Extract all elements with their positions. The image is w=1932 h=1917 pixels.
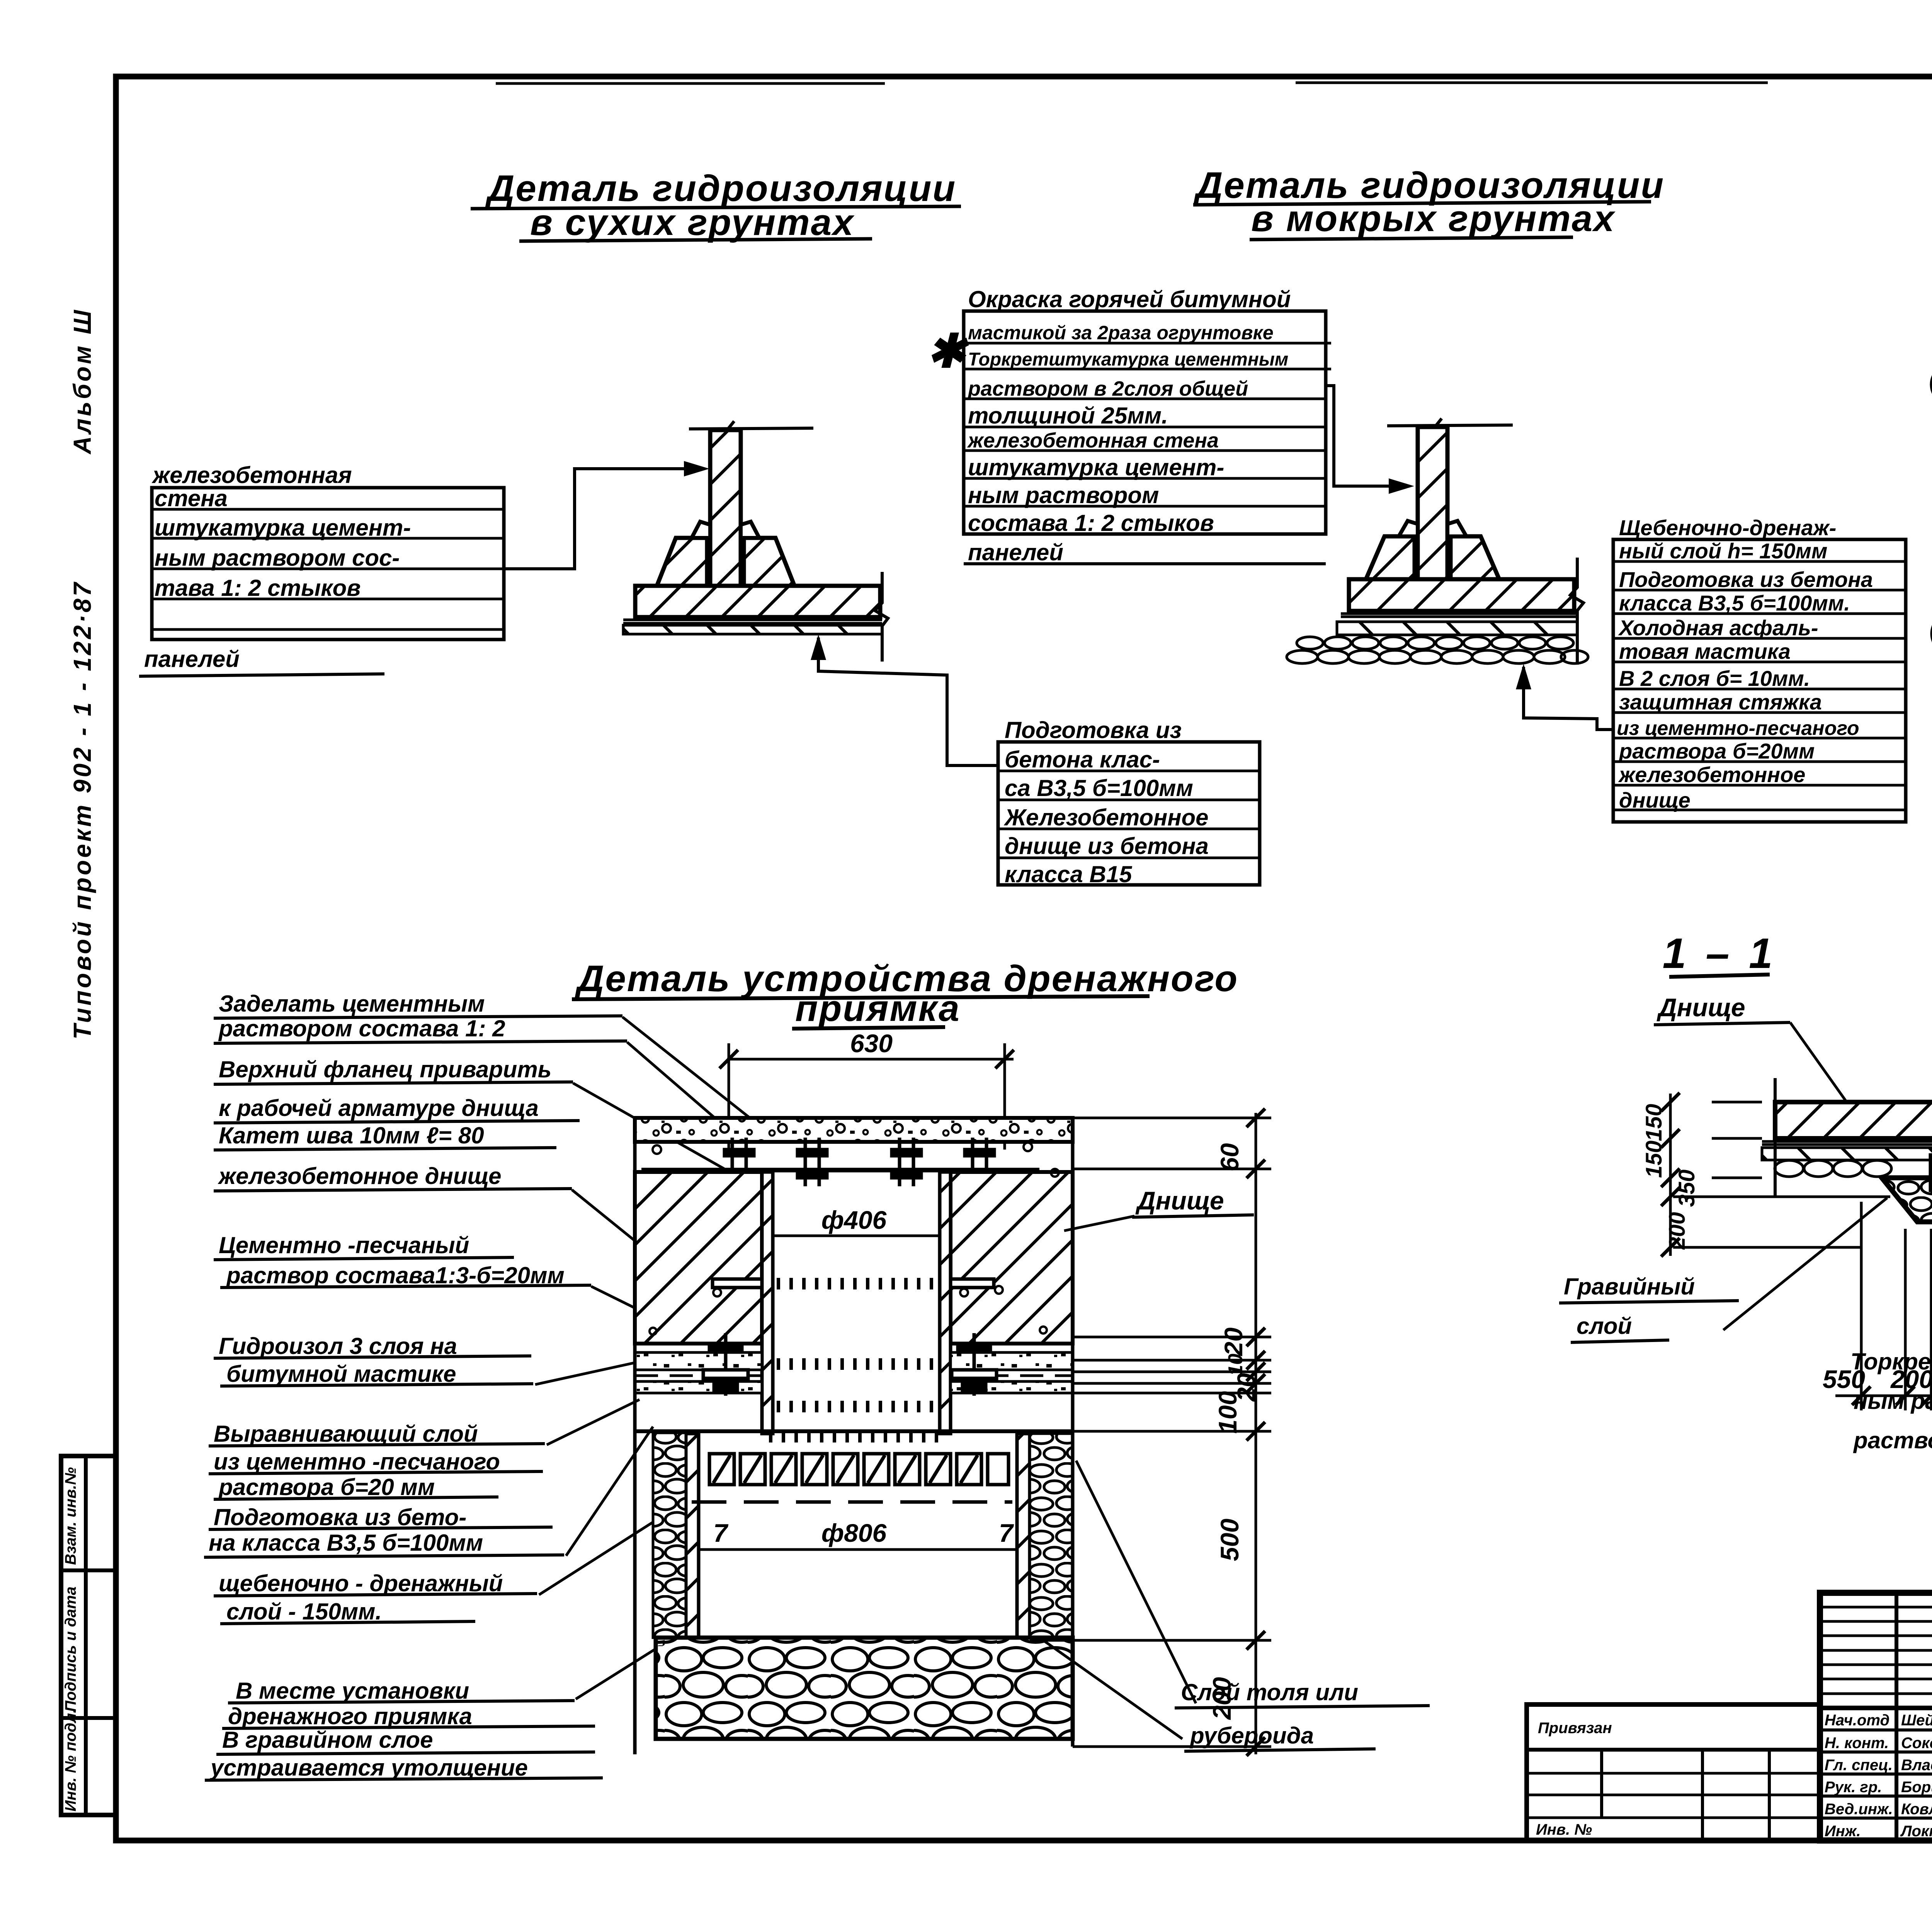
svg-text:Окраска горячей битумной: Окраска горячей битумной xyxy=(968,286,1291,312)
svg-text:200: 200 xyxy=(1665,1212,1690,1250)
big detail: bottom gravel bed xyxy=(656,1638,1073,1739)
svg-text:битумной мастике: битумной мастике xyxy=(226,1361,456,1387)
big detail: base slab hatched left xyxy=(635,1172,762,1344)
section 1-1: gravel funnel xyxy=(1882,1178,1932,1222)
big detail: pit box walls xyxy=(686,1434,699,1638)
svg-text:500: 500 xyxy=(1215,1519,1244,1561)
svg-text:150: 150 xyxy=(1641,1104,1667,1141)
big detail: Днище label xyxy=(1064,1186,1254,1231)
svg-text:Гравийный: Гравийный xyxy=(1564,1274,1695,1300)
upper attestation grid xyxy=(1820,1606,1932,1609)
title block (stamp) xyxy=(1820,1593,1932,1840)
svg-text:раствором в 2слоя общей: раствором в 2слоя общей xyxy=(967,377,1248,400)
svg-text:Катет шва 10мм ℓ= 80: Катет шва 10мм ℓ= 80 xyxy=(219,1123,484,1148)
svg-text:В 2 слоя б= 10мм.: В 2 слоя б= 10мм. xyxy=(1619,666,1810,691)
svg-text:щебеночно - дренажный: щебеночно - дренажный xyxy=(219,1570,503,1596)
left margin small table xyxy=(61,1456,116,1815)
big detail: grate rectangles xyxy=(709,1454,1009,1485)
big detail: base slab hatched right xyxy=(951,1172,1073,1344)
footing left block xyxy=(1366,536,1415,579)
dry detail: leader to wall xyxy=(504,469,696,569)
svg-text:класса В3,5 б=100мм.: класса В3,5 б=100мм. xyxy=(1619,591,1850,615)
stamp: roles xyxy=(1825,1712,1932,1840)
svg-text:100: 100 xyxy=(1213,1391,1242,1434)
svg-text:Шейко: Шейко xyxy=(1901,1712,1932,1729)
gravel row 2 xyxy=(1287,650,1588,663)
section 1-1: Гравийный слой label xyxy=(1559,1198,1887,1342)
svg-text:ный слой h= 150мм: ный слой h= 150мм xyxy=(1619,539,1827,563)
big detail: layer package right xyxy=(951,1344,1073,1393)
svg-text:ф406: ф406 xyxy=(821,1206,887,1234)
svg-text:Холодная асфаль-: Холодная асфаль- xyxy=(1618,616,1818,640)
svg-text:Торкрет штукатурка коллоидно: Торкрет штукатурка коллоидно -полимерцем… xyxy=(1850,1349,1932,1374)
svg-text:150: 150 xyxy=(1641,1141,1667,1178)
section 1-1: Днище label xyxy=(1654,993,1848,1104)
big detail: dim 630 xyxy=(719,1029,1014,1150)
big detail: dashed line in pit xyxy=(692,1500,1012,1504)
svg-text:Подготовка из бетона: Подготовка из бетона xyxy=(1619,567,1873,592)
svg-text:слой: слой xyxy=(1577,1313,1632,1339)
svg-text:Торкретштукатурка цементным: Торкретштукатурка цементным xyxy=(968,349,1288,370)
svg-text:в сухих грунтах: в сухих грунтах xyxy=(530,202,855,243)
svg-text:Локтионов: Локтионов xyxy=(1900,1823,1932,1840)
svg-text:Рук. гр.: Рук. гр. xyxy=(1825,1779,1882,1796)
big detail: left label lines xyxy=(204,991,627,1781)
svg-text:стена: стена xyxy=(155,485,228,511)
svg-text:Гидроизол 3 слоя на: Гидроизол 3 слоя на xyxy=(219,1333,457,1359)
wet detail: wall section xyxy=(1287,418,1588,665)
svg-text:железобетонное: железобетонное xyxy=(1618,762,1805,787)
svg-text:бетона клас-: бетона клас- xyxy=(1005,747,1160,772)
svg-text:Днище: Днище xyxy=(1135,1186,1224,1215)
wet detail: leader to wall xyxy=(1326,386,1401,486)
section 1-1 title xyxy=(1663,930,1777,977)
svg-text:Верхний фланец приварить: Верхний фланец приварить xyxy=(219,1056,551,1082)
floor slab xyxy=(635,586,880,617)
thin screed strip xyxy=(623,625,882,634)
svg-text:ным раствором по а.с. N 537: ным раствором по а.с. N 537972„ строител… xyxy=(1854,1388,1932,1414)
footing right block xyxy=(1451,536,1499,579)
gravel row 1 xyxy=(1297,637,1573,649)
big detail: право dimension chain xyxy=(1030,1113,1271,1754)
svg-text:Подпись и дата: Подпись и дата xyxy=(62,1587,79,1712)
big detail: bottom of base xyxy=(635,1429,1073,1433)
svg-text:Инв. №: Инв. № xyxy=(1536,1821,1592,1838)
svg-text:ным раствором: ным раствором xyxy=(968,482,1159,508)
membrane lines xyxy=(1341,612,1577,615)
svg-text:штукатурка цемент-: штукатурка цемент- xyxy=(155,515,411,541)
footing left block xyxy=(657,538,707,586)
svg-text:железобетонная стена: железобетонная стена xyxy=(967,429,1219,452)
svg-text:Взам. инв.№: Взам. инв.№ xyxy=(62,1467,79,1565)
dry detail: leader to подготовка block xyxy=(818,638,998,765)
section 1-1: cobble strip row xyxy=(1775,1160,1932,1177)
small voids in base mass xyxy=(650,1143,1059,1335)
svg-text:7: 7 xyxy=(999,1519,1014,1547)
big detail: label leader lines xyxy=(535,1017,773,1699)
svg-text:Подготовка из: Подготовка из xyxy=(1005,717,1182,743)
svg-text:В месте установки: В месте установки xyxy=(236,1678,469,1704)
svg-text:приямка: приямка xyxy=(795,988,961,1029)
svg-text:Власенко: Власенко xyxy=(1901,1757,1932,1774)
big detail: rebar tick rows xyxy=(769,1284,943,1437)
cold asphalt mastic strip xyxy=(1337,622,1577,635)
dry detail: wall section xyxy=(623,421,888,662)
big detail: pit pipe walls xyxy=(762,1172,773,1434)
svg-text:Железобетонное: Железобетонное xyxy=(1003,805,1209,830)
svg-text:мастикой за 2раза огрунтовке: мастикой за 2раза огрунтовке xyxy=(968,322,1274,344)
section 1-1: bottom dims xyxy=(1835,1202,1932,1410)
wet detail: leader to right label box xyxy=(1524,667,1613,730)
big detail: flange plate xyxy=(641,1168,1039,1172)
svg-text:Вед.инж.: Вед.инж. xyxy=(1825,1801,1893,1818)
svg-text:60: 60 xyxy=(1215,1143,1244,1172)
svg-text:Гл. спец.: Гл. спец. xyxy=(1825,1757,1893,1774)
dry detail: label box Подготовка из бетона xyxy=(998,717,1260,887)
svg-text:Днище: Днище xyxy=(1656,993,1745,1022)
note: как вариант рекомендуется xyxy=(1850,1309,1932,1453)
title: Деталь гидроизоляции в мокрых грунтах xyxy=(1193,165,1665,240)
big detail title xyxy=(572,958,1238,1029)
big detail: anchor bolts top xyxy=(724,1138,994,1186)
membrane lines xyxy=(623,619,882,621)
svg-text:Подготовка из бето-: Подготовка из бето- xyxy=(214,1504,466,1530)
svg-text:тава 1: 2 стыков: тава 1: 2 стыков xyxy=(155,575,361,601)
svg-text:Нач.отд: Нач.отд xyxy=(1825,1712,1889,1729)
svg-text:7: 7 xyxy=(713,1519,729,1547)
svg-text:устраивается утолщение: устраивается утолщение xyxy=(209,1755,528,1781)
svg-text:Инв. № подл.: Инв. № подл. xyxy=(62,1709,79,1812)
svg-text:20: 20 xyxy=(1219,1327,1248,1357)
big detail: stiffener plates xyxy=(713,1279,762,1288)
svg-text:10: 10 xyxy=(1225,1354,1247,1376)
floor slab xyxy=(1349,579,1574,611)
plan: axis Б/1 xyxy=(1932,364,1932,406)
big detail: lower bolt clusters xyxy=(703,1333,997,1396)
stamp verticals xyxy=(1895,1593,1898,1840)
wet detail: label box Щебеночно-дренажный xyxy=(1613,515,1906,822)
svg-text:Заделать цементным: Заделать цементным xyxy=(219,991,485,1017)
svg-text:Цементно -песчаный: Цементно -песчаный xyxy=(219,1232,469,1258)
svg-text:из цементно-песчаного: из цементно-песчаного xyxy=(1617,717,1859,740)
svg-text:в мокрых грунтах: в мокрых грунтах xyxy=(1251,198,1616,239)
svg-text:раствора б=20 мм: раствора б=20 мм xyxy=(218,1474,435,1500)
svg-text:В гравийном слое: В гравийном слое xyxy=(222,1727,433,1753)
svg-text:630: 630 xyxy=(850,1029,893,1058)
svg-text:раствора б=20мм: раствора б=20мм xyxy=(1618,739,1815,763)
svg-text:Борисенко: Борисенко xyxy=(1901,1779,1932,1796)
svg-text:Ковлика: Ковлика xyxy=(1901,1801,1932,1818)
svg-text:Щебеночно-дренаж-: Щебеночно-дренаж- xyxy=(1619,515,1836,540)
svg-text:днище из бетона: днище из бетона xyxy=(1005,833,1209,859)
svg-text:железобетонное днище: железобетонное днище xyxy=(218,1163,502,1189)
svg-text:рубероида: рубероида xyxy=(1189,1723,1314,1749)
big detail: cobble columns xyxy=(653,1433,686,1638)
svg-text:Н. конт.: Н. конт. xyxy=(1825,1735,1889,1752)
big detail: side boundaries xyxy=(633,1117,637,1754)
svg-text:слой - 150мм.: слой - 150мм. xyxy=(226,1599,382,1624)
svg-text:панелей: панелей xyxy=(144,646,240,672)
svg-text:350: 350 xyxy=(1674,1170,1699,1207)
svg-text:штукатурка цемент-: штукатурка цемент- xyxy=(968,454,1224,480)
svg-text:товая мастика: товая мастика xyxy=(1619,639,1791,663)
svg-text:ф806: ф806 xyxy=(821,1519,887,1547)
signature rows xyxy=(1820,1728,1932,1732)
svg-text:Инж.: Инж. xyxy=(1825,1823,1861,1840)
svg-text:к рабочей арматуре днища: к рабочей арматуре днища xyxy=(219,1095,539,1121)
svg-text:ным раствором сос-: ным раствором сос- xyxy=(155,545,400,571)
big detail: top concrete strip xyxy=(635,1118,1073,1142)
svg-text:железобетонная: железобетонная xyxy=(151,462,352,488)
section 1-1: left dim chain xyxy=(1670,1094,1890,1256)
svg-text:Альбом Ш: Альбом Ш xyxy=(68,308,96,455)
footing right block xyxy=(744,538,794,586)
svg-text:состава 1: 2 стыков: состава 1: 2 стыков xyxy=(968,510,1214,536)
big detail: Слой толя или рубероида xyxy=(1043,1461,1430,1751)
section 1-1: slab edge verticals xyxy=(1774,1078,1777,1196)
break line right xyxy=(875,572,888,662)
привязан table xyxy=(1527,1704,1820,1840)
svg-text:толщиной 25мм.: толщиной 25мм. xyxy=(968,403,1168,429)
svg-text:защитная стяжка: защитная стяжка xyxy=(1619,690,1822,714)
svg-text:класса В15: класса В15 xyxy=(1005,861,1133,887)
svg-text:Типовой проект 902 - 1 - 12: Типовой проект 902 - 1 - 122·87 xyxy=(68,580,96,1039)
section 1-1: подготовка strip xyxy=(1762,1148,1932,1160)
svg-text:1 – 1: 1 – 1 xyxy=(1663,930,1777,977)
title: Деталь гидроизоляции в сухих грунтах xyxy=(471,168,961,243)
wet detail: label box Окраска горячей битумной xyxy=(964,286,1331,565)
break line right xyxy=(1570,558,1583,665)
svg-text:са В3,5 б=100мм: са В3,5 б=100мм xyxy=(1005,775,1193,801)
svg-text:дренажного приямка: дренажного приямка xyxy=(228,1703,472,1729)
svg-text:панелей: панелей xyxy=(968,539,1063,565)
svg-text:Привязан: Привязан xyxy=(1538,1720,1612,1737)
svg-text:на класса В3,5 б=100мм: на класса В3,5 б=100мм xyxy=(209,1530,483,1556)
section 1-1: membrane lines xyxy=(1762,1140,1932,1143)
svg-text:раствор”.: раствор”. xyxy=(1853,1427,1932,1453)
svg-text:Сокольская: Сокольская xyxy=(1901,1735,1932,1752)
svg-text:Слой толя или: Слой толя или xyxy=(1181,1679,1358,1705)
section 1-1: slab xyxy=(1775,1102,1932,1138)
svg-text:раствором состава 1: 2: раствором состава 1: 2 xyxy=(218,1015,505,1041)
dry detail: label box железобетонная стена xyxy=(139,462,504,676)
big detail: layer package left xyxy=(635,1344,762,1393)
